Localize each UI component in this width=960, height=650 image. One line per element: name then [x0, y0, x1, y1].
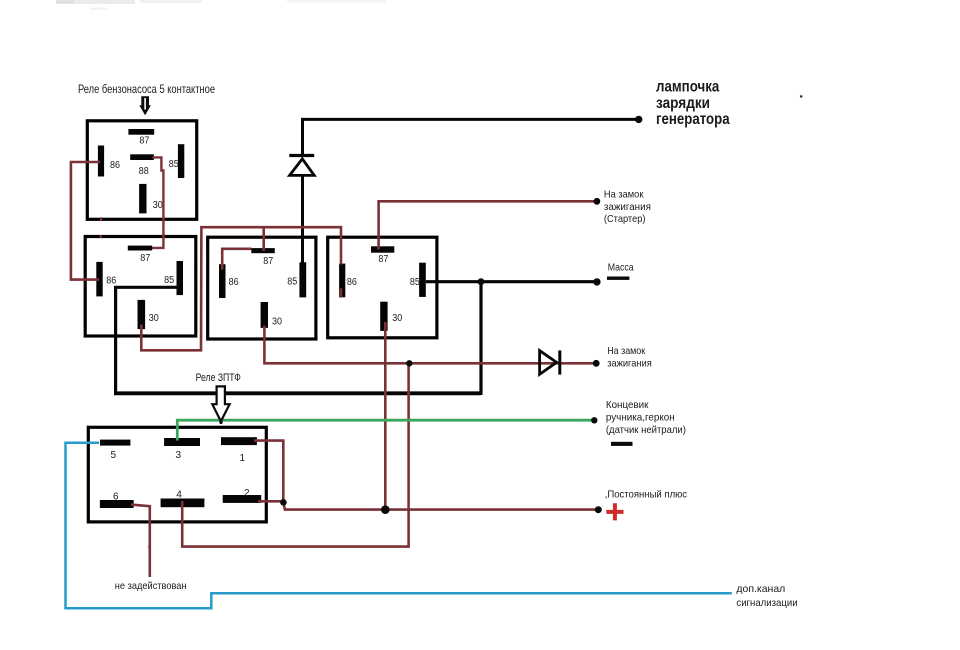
svg-text:3: 3 [176, 450, 182, 461]
svg-text:зажигания: зажигания [607, 357, 652, 369]
wire maroon: relay K4 pin 30 down to big junction [384, 322, 387, 510]
maroon remnant tick on relay K1 bottom edge [100, 217, 102, 221]
relay K3 box [208, 237, 316, 339]
relay K3 pin 86 [219, 264, 239, 298]
decorative smudges top-left (erased screenshot remnants) [56, 0, 386, 10]
wire maroon: relay K1 pin 86 to relay K2 pin 86 [71, 162, 100, 280]
node: junction on ignition line [406, 360, 412, 366]
wire maroon: relay K3 pin 30 down and right to ignition switch terminal [264, 326, 595, 364]
svg-text:Реле бензонасоса 5 контактное: Реле бензонасоса 5 контактное [78, 82, 215, 96]
svg-text:не задействован: не задействован [115, 580, 187, 592]
red plus symbol [606, 503, 623, 520]
svg-text:85: 85 [410, 277, 420, 288]
label: доп.канал сигнализации [736, 583, 797, 609]
svg-text:На замок: На замок [604, 189, 644, 201]
svg-text:2: 2 [244, 488, 250, 499]
svg-text:Концевик: Концевик [606, 399, 649, 411]
wire black: relay K2 pin 85 left and down [116, 287, 178, 393]
wire black: vertical rise to Масса line [479, 282, 482, 395]
svg-text:сигнализации: сигнализации [736, 597, 797, 609]
relay K1 pin 86 [98, 146, 120, 177]
node: Масса terminal [593, 278, 600, 285]
svg-text:30: 30 [153, 200, 163, 211]
svg-text:лампочка: лампочка [656, 79, 720, 96]
svg-text:ручника,геркон: ручника,геркон [606, 412, 675, 424]
wire green: handbrake switch line to relay K5 pin 3 [177, 420, 594, 440]
relay K4 pin 87 [371, 246, 394, 265]
svg-text:88: 88 [139, 166, 149, 177]
relay K4 pin 86 [339, 264, 357, 298]
relay K1 pin 30 [139, 184, 163, 214]
svg-text:6: 6 [113, 492, 119, 503]
relay K1 pin 88 [130, 154, 154, 177]
node: constant plus terminal [595, 506, 602, 513]
wire maroon: relay K1 pin 88 to relay K2 pin 87 [152, 157, 164, 248]
node: generator lamp terminal [635, 116, 642, 123]
wire black: bottom horizontal bus to node under Масса [114, 391, 481, 395]
svg-text:87: 87 [140, 253, 150, 264]
wire maroon: relay K5 pin 6 down, not used [131, 505, 150, 577]
svg-text:30: 30 [149, 313, 159, 324]
svg-text:(Стартер): (Стартер) [604, 213, 646, 225]
relay K2 pin 85 [164, 261, 183, 295]
maroon remnant tick on relay K2 top edge [100, 235, 102, 238]
svg-text:30: 30 [392, 313, 402, 324]
relay K1 pin 87 [128, 129, 154, 146]
diode D2 (in ignition switch line) [540, 350, 560, 374]
label: На замок зажигания [607, 345, 652, 369]
relay K2 pin 86 [96, 262, 116, 297]
wire cyan: relay K5 pin 5 to alarm extra channel [66, 443, 732, 608]
relay K5 pin 5 [100, 440, 130, 461]
svg-text:85: 85 [164, 275, 174, 286]
svg-text:86: 86 [229, 277, 239, 288]
wire maroon: relay K2 pin 30 up over bus y227 to relay K4 pin 86 [141, 227, 341, 350]
wire maroon: relay K5 pin 2 right to junction [258, 500, 283, 503]
svg-text:зарядки: зарядки [656, 95, 710, 112]
wire black: diode D1 cathode up and right to generator lamp [303, 119, 638, 155]
relay K2 pin 87 [128, 246, 152, 265]
label: Концевик ручника,геркон (датчик нейтрали) [606, 399, 686, 436]
label: лампочка зарядки генератора [656, 79, 730, 129]
svg-text:зажигания: зажигания [604, 201, 651, 213]
wire black: diode D1 anode down to relay K3 pin 85 [301, 177, 304, 264]
relay K5 pin 2 [223, 488, 262, 503]
wire maroon: ignition switch (starter) line to relay K4 pin 87 [379, 201, 597, 249]
relay K2 pin 30 [138, 300, 160, 329]
svg-text:генератора: генератора [656, 111, 730, 128]
svg-text:30: 30 [272, 317, 282, 328]
relay K4 pin 30 [380, 302, 402, 331]
relay K2 box [85, 237, 196, 337]
relay K1 box (5-pin fuel pump relay) [87, 121, 196, 220]
svg-text:(датчик нейтрали): (датчик нейтрали) [606, 424, 686, 436]
relay K3 pin 87 [251, 248, 274, 267]
relay K3 pin 85 [287, 262, 306, 297]
relay K5 pin 1 [221, 437, 257, 464]
maroon remnant tick near pin6 wire [148, 546, 150, 548]
wire maroon: junction down, left and up to relay K5 pin 4 [182, 363, 408, 546]
wire maroon: relay K3 pin 86 link to pin 87 [222, 249, 251, 270]
wire maroon: junction to constant plus terminal [283, 502, 597, 509]
relay K5 pin 6 [100, 492, 134, 508]
wire maroon: segment over relay K4 pin 86 bar [340, 288, 343, 297]
relay K1 pin 85 [169, 144, 184, 178]
svg-text:87: 87 [378, 254, 388, 265]
node: starter ignition terminal [594, 198, 601, 205]
arrow pointer to relay K5 [212, 386, 229, 424]
wire black: relay K4 pin 85 to Масса terminal [426, 280, 597, 283]
relay K5 box (6-pin rear fog lamp relay) [88, 427, 266, 522]
node: ignition switch terminal [593, 360, 600, 367]
label: На замок зажигания (Стартер) [604, 189, 651, 226]
diode D1 (vertical, near generator lamp wire) [289, 156, 314, 176]
relay K4 box [328, 237, 437, 338]
ground bar under Масса [607, 277, 629, 280]
svg-text:4: 4 [176, 489, 182, 500]
svg-text:85: 85 [169, 159, 179, 170]
svg-text:87: 87 [139, 135, 149, 146]
relay K3 pin 30 [261, 302, 283, 328]
svg-text:86: 86 [106, 276, 116, 287]
svg-text:1: 1 [240, 453, 246, 464]
svg-text:86: 86 [110, 160, 120, 171]
arrow pointer to relay K1 [139, 96, 151, 115]
svg-text:Масса: Масса [608, 261, 634, 273]
ground bar under Концевик label [611, 442, 633, 446]
relay K4 pin 85 [410, 263, 426, 297]
svg-text:Реле ЗПТФ: Реле ЗПТФ [196, 372, 241, 384]
svg-text:,Постоянный плюс: ,Постоянный плюс [605, 489, 687, 501]
svg-text:87: 87 [263, 256, 273, 267]
wire maroon: relay K5 pin 1 right and down [254, 441, 283, 503]
node: junction at Масса bus [478, 278, 485, 285]
decorative black speck top right [800, 95, 803, 98]
node: handbrake switch terminal [591, 417, 597, 423]
relay K5 pin 3 [164, 438, 200, 461]
svg-text:На замок: На замок [607, 345, 645, 357]
relay K5 pin 4 [161, 489, 205, 507]
svg-text:86: 86 [347, 277, 357, 288]
node: big junction on constant plus line [381, 505, 390, 514]
node: junction pins 1-2 of relay K5 [280, 499, 287, 506]
wire maroon: bus branch down to relay K3 pin 87 [262, 227, 265, 251]
svg-text:85: 85 [287, 277, 297, 288]
svg-text:доп.канал: доп.канал [736, 583, 785, 595]
svg-text:5: 5 [111, 450, 117, 461]
